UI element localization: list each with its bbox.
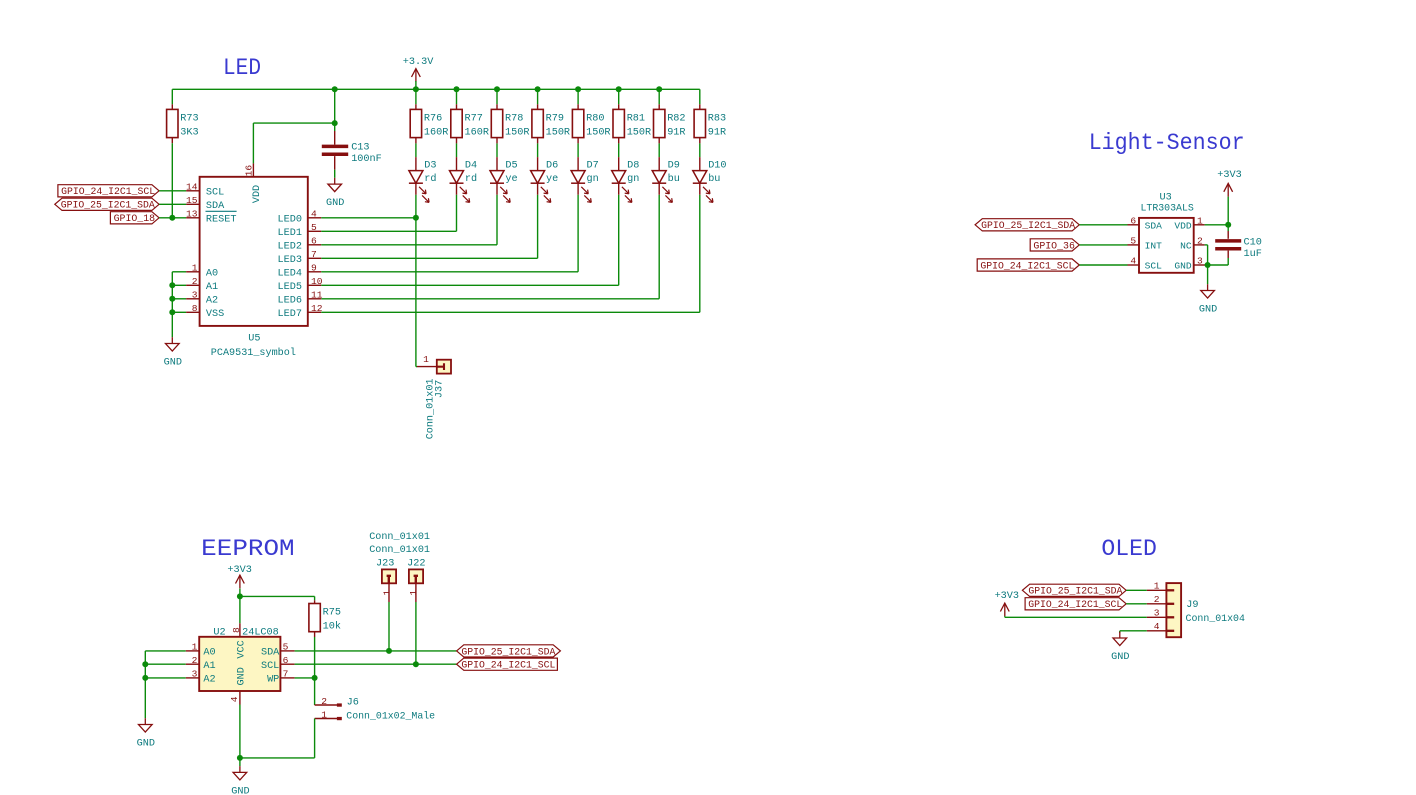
svg-text:NC: NC bbox=[1180, 241, 1192, 252]
op-amp U5 body bbox=[200, 177, 308, 326]
svg-text:D6: D6 bbox=[546, 160, 558, 171]
wire VDD horizontal bbox=[253, 122, 334, 124]
connector J37 bbox=[437, 360, 451, 374]
svg-text:bu: bu bbox=[668, 173, 680, 185]
svg-text:6: 6 bbox=[283, 655, 289, 666]
capacitor C10 bbox=[1215, 241, 1241, 249]
pin 9 LED4 bbox=[308, 271, 322, 273]
IC U3 body bbox=[1139, 218, 1194, 273]
ground (U5) bbox=[166, 337, 180, 351]
pin C10 bottom bbox=[1227, 251, 1229, 258]
pin D7 anode bbox=[577, 157, 579, 171]
wire R75 top bbox=[314, 596, 316, 600]
junction bus col R82 bbox=[656, 86, 662, 92]
wire SDA bbox=[1079, 224, 1127, 226]
pin 12 LED7 bbox=[308, 311, 322, 313]
ground (U3) bbox=[1201, 284, 1215, 298]
wire address gnd bbox=[144, 651, 146, 718]
wire A0 bbox=[145, 650, 185, 652]
svg-text:5: 5 bbox=[1130, 235, 1136, 246]
ground (J9) bbox=[1113, 632, 1127, 646]
pin R75 top bbox=[314, 600, 316, 603]
svg-text:GPIO_24_I2C1_SCL: GPIO_24_I2C1_SCL bbox=[980, 261, 1074, 272]
wire D3 to LED0/J37 bbox=[415, 195, 417, 367]
svg-text:D9: D9 bbox=[668, 160, 680, 171]
svg-text:4: 4 bbox=[311, 209, 317, 220]
pin 8 VCC bbox=[239, 623, 241, 637]
svg-text:8: 8 bbox=[192, 303, 198, 314]
svg-text:Conn_01x01: Conn_01x01 bbox=[369, 545, 430, 556]
global label GPIO_24_I2C1_SCL bbox=[457, 658, 558, 670]
svg-text:OLED: OLED bbox=[1101, 536, 1157, 562]
pin R80 bottom bbox=[577, 138, 579, 144]
svg-text:+3V3: +3V3 bbox=[995, 591, 1019, 602]
power +3V3 bbox=[236, 575, 245, 588]
svg-text:9: 9 bbox=[311, 263, 317, 274]
svg-text:LED: LED bbox=[223, 55, 261, 81]
svg-text:LED5: LED5 bbox=[278, 282, 302, 293]
resistor R83 bbox=[694, 109, 705, 137]
global label GPIO_24_I2C1_SCL bbox=[58, 185, 159, 197]
svg-text:LED1: LED1 bbox=[278, 228, 302, 239]
pin R77 top bbox=[456, 104, 458, 109]
power +3.3V bbox=[412, 69, 421, 82]
svg-text:C13: C13 bbox=[351, 142, 369, 153]
capacitor C13 bbox=[322, 146, 348, 154]
pin R73 top bbox=[171, 104, 173, 109]
junction R73/RESET bbox=[169, 215, 175, 221]
svg-text:ye: ye bbox=[505, 174, 517, 185]
wire NC bbox=[1205, 244, 1208, 246]
pin D9 anode bbox=[658, 157, 660, 171]
svg-text:SCL: SCL bbox=[206, 188, 224, 199]
RESET overbar bbox=[206, 210, 237, 212]
resistor R80 bbox=[572, 109, 583, 137]
svg-text:rd: rd bbox=[424, 173, 436, 185]
svg-text:GND: GND bbox=[231, 786, 249, 795]
svg-text:SDA: SDA bbox=[206, 201, 225, 212]
svg-text:J6: J6 bbox=[347, 698, 359, 709]
svg-text:10k: 10k bbox=[323, 620, 341, 632]
svg-text:4: 4 bbox=[229, 696, 240, 702]
pin 1 A0 bbox=[186, 650, 200, 652]
wire R80 to D7 bbox=[577, 143, 579, 157]
connector J22 bbox=[409, 569, 423, 583]
svg-text:J22: J22 bbox=[407, 558, 425, 569]
svg-text:91R: 91R bbox=[708, 127, 726, 138]
svg-text:D4: D4 bbox=[465, 160, 477, 171]
wire VCC bbox=[239, 596, 241, 623]
svg-text:3: 3 bbox=[192, 290, 198, 301]
pin R76 bottom bbox=[415, 138, 417, 144]
svg-text:U2: U2 bbox=[213, 628, 225, 639]
wire LED4 row bbox=[321, 271, 578, 273]
ground (U2) bbox=[233, 766, 247, 780]
svg-text:8: 8 bbox=[231, 627, 242, 633]
pin R83 top bbox=[699, 104, 701, 109]
pin 5 SDA bbox=[280, 650, 294, 652]
wire SDA bbox=[1126, 589, 1147, 591]
svg-text:+3.3V: +3.3V bbox=[403, 57, 434, 68]
svg-text:SDA: SDA bbox=[1145, 220, 1163, 231]
pin 4 LED0 bbox=[308, 217, 322, 219]
junction GND net bbox=[1205, 262, 1211, 268]
junction bus/C13 bbox=[332, 86, 338, 92]
wire R78 to D5 bbox=[496, 143, 498, 157]
svg-text:D10: D10 bbox=[708, 160, 726, 171]
svg-text:D8: D8 bbox=[627, 160, 639, 171]
LED D3 bbox=[409, 171, 423, 184]
wire bus to R79 bbox=[537, 89, 539, 104]
svg-text:5: 5 bbox=[311, 222, 317, 233]
pin 6 SCL bbox=[280, 663, 294, 665]
svg-text:3: 3 bbox=[1154, 608, 1160, 619]
pin 2 NC bbox=[1194, 244, 1205, 246]
resistor R73 bbox=[167, 109, 178, 137]
LED D4 bbox=[450, 171, 464, 184]
svg-text:160R: 160R bbox=[424, 127, 448, 138]
svg-text:J37: J37 bbox=[435, 380, 446, 398]
ground (U2 addr) bbox=[139, 718, 153, 732]
junction VDD/C10 bbox=[1225, 222, 1231, 228]
wire R79 to D6 bbox=[537, 143, 539, 157]
svg-text:1: 1 bbox=[192, 642, 198, 653]
svg-text:GPIO_25_I2C1_SDA: GPIO_25_I2C1_SDA bbox=[461, 647, 556, 658]
LED D9 bbox=[652, 171, 666, 184]
svg-text:R81: R81 bbox=[627, 113, 645, 124]
J9 pin 3 socket bbox=[1166, 616, 1174, 618]
svg-text:LED0: LED0 bbox=[278, 215, 302, 226]
wire R76 to D3 bbox=[415, 143, 417, 157]
pin R76 top bbox=[415, 104, 417, 109]
svg-text:gn: gn bbox=[627, 174, 639, 185]
pin 2 A1 bbox=[186, 663, 200, 665]
svg-text:bu: bu bbox=[708, 173, 720, 185]
wire D9 down bbox=[658, 195, 660, 299]
pin 1 VDD bbox=[1194, 224, 1205, 226]
wire to J37 bbox=[416, 366, 417, 368]
svg-text:GND: GND bbox=[164, 357, 182, 368]
pin R83 bottom bbox=[699, 138, 701, 144]
pin D9 cathode bbox=[658, 183, 660, 195]
svg-text:D5: D5 bbox=[505, 160, 517, 171]
svg-text:2: 2 bbox=[321, 696, 327, 707]
junction bus col R80 bbox=[575, 86, 581, 92]
wire C10 top bbox=[1227, 225, 1229, 231]
pin D4 anode bbox=[456, 157, 458, 171]
wire bus to R73 bbox=[171, 89, 173, 104]
wire SCL bbox=[1079, 264, 1127, 266]
wire VDD vertical bbox=[252, 123, 254, 163]
wire D10 down bbox=[699, 195, 701, 312]
pin 2 A1 bbox=[186, 284, 200, 286]
svg-text:LED4: LED4 bbox=[278, 269, 302, 280]
svg-text:GPIO_24_I2C1_SCL: GPIO_24_I2C1_SCL bbox=[61, 187, 155, 198]
wire A2 bbox=[145, 677, 185, 679]
pin 15 SDA bbox=[186, 203, 200, 205]
svg-text:1: 1 bbox=[1197, 215, 1203, 226]
svg-text:1: 1 bbox=[192, 263, 198, 274]
svg-text:GND: GND bbox=[1111, 652, 1129, 663]
resistor R78 bbox=[491, 109, 502, 137]
resistor R79 bbox=[532, 109, 543, 137]
pin R79 bottom bbox=[537, 138, 539, 144]
wire +3V3 down bbox=[239, 589, 241, 597]
svg-text:GND: GND bbox=[1199, 304, 1217, 315]
svg-text:Light-Sensor: Light-Sensor bbox=[1089, 130, 1245, 156]
wire SCL bbox=[1126, 603, 1147, 605]
pin C13 bottom bbox=[334, 156, 336, 170]
J9 pin 4 socket bbox=[1166, 630, 1174, 632]
pin 7 WP bbox=[280, 677, 294, 679]
pin 6 SDA bbox=[1128, 224, 1140, 226]
svg-text:LED3: LED3 bbox=[278, 255, 302, 266]
junction bus col R77 bbox=[454, 86, 460, 92]
wire LED0 row bbox=[321, 217, 416, 219]
resistor R75 bbox=[309, 604, 320, 632]
svg-text:10: 10 bbox=[311, 276, 323, 287]
pin 1 J9 bbox=[1147, 589, 1167, 591]
pin 1 J23 bbox=[388, 583, 390, 602]
global label GPIO_25_I2C1_SDA bbox=[457, 645, 561, 657]
svg-text:Conn_01x04: Conn_01x04 bbox=[1186, 614, 1245, 625]
pin 3 GND bbox=[1194, 264, 1205, 266]
pin R81 top bbox=[618, 104, 620, 109]
junction A2 bbox=[142, 675, 148, 681]
wire D6 down bbox=[537, 195, 539, 258]
wire pin4 row bbox=[1120, 630, 1147, 632]
wire bus to R81 bbox=[618, 89, 620, 104]
svg-text:SCL: SCL bbox=[261, 661, 279, 672]
svg-text:LED2: LED2 bbox=[278, 242, 302, 253]
svg-text:VSS: VSS bbox=[206, 309, 224, 320]
wire R75 to WP bbox=[314, 637, 316, 678]
svg-text:A2: A2 bbox=[203, 675, 215, 686]
junction LED0/J37 bbox=[413, 215, 419, 221]
pin C13 top bbox=[334, 131, 336, 145]
wire J6 pin1 down bbox=[314, 719, 316, 758]
svg-text:15: 15 bbox=[186, 195, 198, 206]
junction bus col R79 bbox=[535, 86, 541, 92]
wire D8 down bbox=[618, 195, 620, 285]
pin R78 bottom bbox=[496, 138, 498, 144]
svg-text:J9: J9 bbox=[1186, 600, 1198, 611]
svg-text:Conn_01x02_Male: Conn_01x02_Male bbox=[346, 710, 435, 722]
wire GPIO_18 bbox=[159, 217, 186, 219]
svg-text:6: 6 bbox=[311, 236, 317, 247]
junction J23/SDA bbox=[386, 648, 392, 654]
pin 3 A2 bbox=[186, 298, 200, 300]
svg-text:7: 7 bbox=[311, 249, 317, 260]
svg-text:GPIO_24_I2C1_SCL: GPIO_24_I2C1_SCL bbox=[1028, 600, 1122, 611]
svg-text:R76: R76 bbox=[424, 113, 442, 124]
resistor R76 bbox=[410, 109, 421, 137]
connector J23 bbox=[382, 569, 396, 583]
svg-text:GND: GND bbox=[1174, 261, 1192, 272]
svg-text:WP: WP bbox=[267, 675, 279, 686]
svg-text:VDD: VDD bbox=[252, 185, 263, 203]
svg-text:1: 1 bbox=[321, 710, 327, 721]
wire C13 to GND bbox=[334, 170, 336, 178]
svg-text:ye: ye bbox=[546, 174, 558, 185]
wire pin3 row bbox=[1005, 616, 1147, 618]
svg-text:GND: GND bbox=[236, 667, 247, 685]
wire bus to R80 bbox=[577, 89, 579, 104]
wire pin4 to gnd bbox=[239, 705, 241, 758]
svg-text:PCA9531_symbol: PCA9531_symbol bbox=[211, 347, 296, 359]
pin D6 cathode bbox=[537, 183, 539, 195]
junction VSS bbox=[169, 309, 175, 315]
svg-text:A0: A0 bbox=[203, 648, 215, 659]
svg-text:14: 14 bbox=[186, 182, 198, 193]
svg-text:GPIO_24_I2C1_SCL: GPIO_24_I2C1_SCL bbox=[461, 661, 555, 672]
svg-text:GPIO_36: GPIO_36 bbox=[1033, 241, 1075, 252]
svg-text:2: 2 bbox=[1154, 594, 1160, 605]
pin R80 top bbox=[577, 104, 579, 109]
svg-text:100nF: 100nF bbox=[351, 154, 382, 165]
pin D6 anode bbox=[537, 157, 539, 171]
wire R82 to D9 bbox=[658, 143, 660, 157]
wire C10 to gnd row bbox=[1227, 258, 1229, 265]
LED D8 bbox=[612, 171, 626, 184]
svg-text:rd: rd bbox=[465, 173, 477, 185]
svg-text:R80: R80 bbox=[586, 113, 604, 124]
junction bus col R78 bbox=[494, 86, 500, 92]
junction A2 bbox=[169, 296, 175, 302]
wire R73 to RESET net bbox=[171, 143, 173, 218]
svg-text:13: 13 bbox=[186, 209, 198, 220]
wire NC down bbox=[1207, 245, 1209, 265]
svg-text:LTR303ALS: LTR303ALS bbox=[1141, 204, 1194, 215]
wire A1 bbox=[145, 663, 185, 665]
wire R77 to D4 bbox=[456, 143, 458, 157]
resistor R77 bbox=[451, 109, 462, 137]
pin D5 cathode bbox=[496, 183, 498, 195]
wire A1 bbox=[172, 284, 186, 286]
ground (C13) bbox=[328, 178, 342, 192]
svg-text:2: 2 bbox=[1197, 235, 1203, 246]
svg-text:160R: 160R bbox=[465, 127, 489, 138]
pin R75 bottom bbox=[314, 632, 316, 637]
svg-text:150R: 150R bbox=[627, 127, 651, 138]
wire LED2 row bbox=[321, 244, 497, 246]
svg-text:A1: A1 bbox=[203, 661, 215, 672]
wire bus to R78 bbox=[496, 89, 498, 104]
svg-text:2: 2 bbox=[192, 655, 198, 666]
wire bus to R83 bbox=[699, 89, 701, 104]
pin 5 LED1 bbox=[308, 230, 322, 232]
svg-text:RESET: RESET bbox=[206, 215, 237, 226]
pin 4 SCL bbox=[1128, 264, 1140, 266]
svg-text:J23: J23 bbox=[376, 558, 394, 569]
wire INT bbox=[1079, 244, 1127, 246]
LED D5 bbox=[490, 171, 504, 184]
svg-text:GPIO_25_I2C1_SDA: GPIO_25_I2C1_SDA bbox=[61, 201, 156, 212]
J9 pin 1 socket bbox=[1166, 589, 1174, 591]
LED D10 bbox=[693, 171, 707, 184]
pin 13 RESET bbox=[186, 217, 200, 219]
svg-text:A0: A0 bbox=[206, 269, 218, 280]
pin 10 LED5 bbox=[308, 284, 322, 286]
wire WP bbox=[295, 677, 315, 679]
pin 11 LED6 bbox=[308, 298, 322, 300]
svg-text:GPIO_25_I2C1_SDA: GPIO_25_I2C1_SDA bbox=[981, 221, 1076, 232]
svg-text:16: 16 bbox=[244, 165, 255, 177]
pin D8 cathode bbox=[618, 183, 620, 195]
wire J22 to SCL bbox=[415, 602, 417, 664]
connector J6 pin 2 bbox=[315, 704, 338, 706]
wire A2 bbox=[172, 298, 186, 300]
pin 3 A2 bbox=[186, 677, 200, 679]
connector J6 pin 1 bbox=[315, 718, 338, 720]
svg-text:7: 7 bbox=[283, 669, 289, 680]
svg-text:C10: C10 bbox=[1244, 238, 1262, 249]
svg-text:GND: GND bbox=[137, 738, 155, 749]
pin 8 VSS bbox=[186, 311, 200, 313]
svg-text:A2: A2 bbox=[206, 296, 218, 307]
svg-text:INT: INT bbox=[1145, 241, 1163, 252]
wire bus to R82 bbox=[658, 89, 660, 104]
wire R81 to D8 bbox=[618, 143, 620, 157]
wire bus down to VDD tap bbox=[334, 89, 336, 123]
wire to R75 bbox=[240, 595, 315, 597]
svg-text:R73: R73 bbox=[180, 113, 198, 124]
pin R78 top bbox=[496, 104, 498, 109]
svg-text:3: 3 bbox=[192, 669, 198, 680]
wire VSS bbox=[172, 311, 186, 313]
wire +3.3V bus bbox=[172, 88, 700, 90]
svg-text:VCC: VCC bbox=[236, 640, 247, 658]
pin R73 bottom bbox=[171, 138, 173, 144]
wire power to bus bbox=[415, 81, 417, 89]
wire SDA row bbox=[295, 650, 457, 652]
svg-text:R75: R75 bbox=[323, 608, 341, 619]
pin D5 anode bbox=[496, 157, 498, 171]
junction gnd bbox=[237, 755, 243, 761]
wire D7 down bbox=[577, 195, 579, 272]
svg-text:R78: R78 bbox=[505, 113, 523, 124]
svg-text:+3V3: +3V3 bbox=[227, 565, 251, 576]
wire to C13 bbox=[334, 123, 336, 131]
pin D10 anode bbox=[699, 157, 701, 171]
pin 2 J9 bbox=[1147, 603, 1167, 605]
junction A1 bbox=[142, 661, 148, 667]
pin 1 J37 bbox=[417, 366, 437, 368]
wire WP to J6 pin2 bbox=[314, 678, 316, 705]
wire address pins to gnd bbox=[171, 272, 173, 337]
pin D7 cathode bbox=[577, 183, 579, 195]
svg-text:D3: D3 bbox=[424, 160, 436, 171]
svg-text:150R: 150R bbox=[586, 127, 610, 138]
global label GPIO_25_I2C1_SDA bbox=[975, 219, 1079, 231]
svg-text:1: 1 bbox=[1154, 581, 1160, 592]
resistor R82 bbox=[654, 109, 665, 137]
wire R83 to D10 bbox=[699, 143, 701, 157]
svg-text:3K3: 3K3 bbox=[180, 127, 198, 138]
pin 1 J22 bbox=[415, 583, 417, 602]
pin D3 cathode bbox=[415, 183, 417, 195]
svg-text:Conn_01x01: Conn_01x01 bbox=[369, 532, 430, 543]
svg-text:11: 11 bbox=[311, 290, 323, 301]
svg-text:3: 3 bbox=[1197, 256, 1203, 267]
svg-text:1uF: 1uF bbox=[1244, 249, 1262, 260]
wire to gnd bbox=[1119, 631, 1121, 633]
svg-text:24LC08: 24LC08 bbox=[242, 628, 279, 639]
svg-text:4: 4 bbox=[1154, 621, 1160, 632]
wire VDD bbox=[1205, 224, 1229, 226]
wire D5 down bbox=[496, 195, 498, 245]
wire LED1 row bbox=[321, 230, 456, 232]
